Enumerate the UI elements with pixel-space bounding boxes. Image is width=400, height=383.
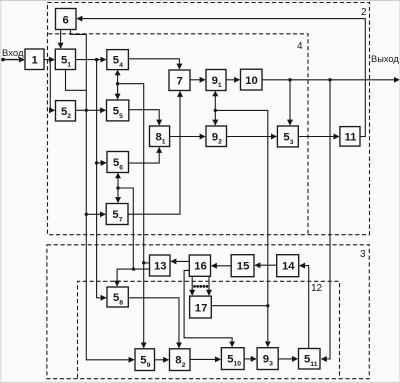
wire 14 to 15 <box>255 264 277 266</box>
svg-text:12: 12 <box>311 283 323 294</box>
block 17 <box>190 296 212 318</box>
wire 5_2 to 5_5 <box>76 109 106 111</box>
svg-text:6: 6 <box>63 15 69 27</box>
wire 9_1 bottom / 9_2 top bidirectional <box>214 92 216 125</box>
block 1 <box>25 49 44 70</box>
wire 8_2 to 5_10 <box>190 358 220 360</box>
junction dot 17 output <box>266 304 269 307</box>
block 10 <box>241 69 263 90</box>
block 5_2 <box>56 101 76 121</box>
svg-text:3: 3 <box>360 249 366 260</box>
junction dot on 5_4-5_5 link <box>116 82 119 85</box>
dashed box 2 (outer upper unit) <box>48 3 370 235</box>
junction dot on 5_2-5_5 wire <box>85 109 88 112</box>
wire 5_4 to 7 top <box>128 59 179 69</box>
wire 7 to 9_1 <box>190 79 205 81</box>
wire 16 to 17 bus left line <box>191 276 193 295</box>
dashed box 3 (outer lower unit) <box>47 245 369 379</box>
svg-text:1: 1 <box>32 55 38 67</box>
bus ellipsis dots between 16 and 17 <box>193 285 208 288</box>
wire 17 output to sync line <box>211 305 267 307</box>
wire branch to 5_6 left <box>97 162 106 164</box>
block 5_6 <box>107 152 129 173</box>
wire 5_10 to 9_3 <box>244 358 256 360</box>
junction dot on left bus at 5_7 level <box>85 213 88 216</box>
block 14 <box>277 255 299 277</box>
wire block 11 output feedback to block 6 <box>77 19 365 137</box>
junction dot on 1-5_1 wire <box>49 58 52 61</box>
wire branch from 5_6-5_7 link down to 5_8 feed line <box>118 188 133 269</box>
block 8_2 <box>170 349 191 371</box>
junction input terminal dot <box>1 58 5 62</box>
wire junction down to 5_2 left <box>50 60 54 111</box>
block 5_8 <box>107 287 128 307</box>
junction dot on 5_6-5_7 link <box>116 186 119 189</box>
wire 8_1 to 9_2 <box>170 136 205 138</box>
block 5_10 <box>221 348 244 370</box>
block 15 <box>231 255 254 277</box>
dashed box 4 (inner upper unit) <box>48 34 308 234</box>
wire 5_1 to 5_4 <box>76 59 106 61</box>
wire 5_3 to 11 <box>298 136 338 138</box>
wire 15 to 16 <box>212 265 232 267</box>
wire output line to Выход <box>262 79 399 81</box>
svg-text:15: 15 <box>237 261 250 273</box>
block 7 <box>169 70 190 91</box>
wire stub into 13 left <box>144 262 150 264</box>
svg-text:13: 13 <box>154 261 167 273</box>
block 8_1 <box>150 126 170 147</box>
wire block 6 to 5_1 top <box>60 30 62 48</box>
junction dot on branch at 5_6 level <box>95 161 98 164</box>
block 5_1 <box>55 49 75 69</box>
wire 16 to 17 bus right line <box>208 276 210 295</box>
svg-text:4: 4 <box>297 41 303 52</box>
block 11 <box>340 127 360 147</box>
wire 9_2 to 5_3 <box>227 136 277 138</box>
svg-text:Вход: Вход <box>2 48 24 59</box>
svg-text:Выход: Выход <box>371 54 399 64</box>
wire junction to descending line to 13 area <box>118 84 144 348</box>
junction dot at 13 left stub <box>142 261 145 264</box>
wire 5_6 bottom / 5_7 top bidirectional <box>117 174 119 203</box>
block 5_11 <box>299 349 321 370</box>
block 5_4 <box>107 50 129 70</box>
svg-text:17: 17 <box>195 302 208 314</box>
wire output branch down into 5_3 top <box>289 80 291 125</box>
wire branch to 5_7 left <box>86 213 105 215</box>
wire 5_1 bottom joining vertical bus <box>66 70 87 91</box>
wire 5_11 top up into 14 right <box>300 266 309 349</box>
block 16 <box>189 255 210 276</box>
svg-text:10: 10 <box>245 75 258 87</box>
block 5_7 <box>106 204 128 225</box>
wire input terminal to block 1 <box>3 59 25 61</box>
wire 5_1 output branch down to 5_6 and 5_8 <box>97 60 106 298</box>
block 9_2 <box>206 126 227 147</box>
wire output branch down into 5_11 right <box>322 80 330 359</box>
junction dot on 9_1-9_2 link <box>214 109 217 112</box>
wire 5_9 to 8_2 <box>155 359 169 361</box>
svg-text:2: 2 <box>361 7 367 18</box>
wire 16 to 13 <box>171 260 189 262</box>
block 9_3 <box>257 348 278 370</box>
wire 5_7 output up to 7 bottom <box>128 92 180 215</box>
wire 9_1 to 10 <box>226 79 239 81</box>
wire block 6 second output down-right <box>71 30 134 360</box>
svg-text:7: 7 <box>177 76 183 88</box>
wire 5_5 to 8_1 top <box>129 110 159 125</box>
junction dot on 5_8 feed line <box>132 267 135 270</box>
block 5_9 <box>135 349 155 371</box>
wire horizontal into 13 left lower <box>117 269 149 286</box>
block 5_5 <box>107 100 129 121</box>
block 9_1 <box>206 70 226 91</box>
wire 9_3 to 5_11 <box>278 358 297 360</box>
junction dot output line at 290 <box>288 78 291 81</box>
junction dot on 5_1-5_4 wire <box>95 58 98 61</box>
block 13 <box>150 255 171 276</box>
block 6 <box>56 9 77 30</box>
dashed box 12 (inner lower unit) <box>78 281 340 378</box>
block 5_3 <box>277 126 298 147</box>
wire 5_4 bottom / 5_5 top bidirectional <box>117 71 119 84</box>
wire 16 lower-left down to 5_10 top <box>184 270 232 346</box>
wire 5_8 output to 8_2 top <box>128 298 179 348</box>
wire block 1 to 5_1 <box>44 59 54 61</box>
wire sync line from 9 link down to 9_3 top <box>215 110 267 346</box>
svg-text:16: 16 <box>194 261 207 273</box>
wire 5_6 to 8_1 bottom <box>129 148 160 163</box>
svg-text:11: 11 <box>345 131 357 143</box>
junction dot output line at 330 <box>328 78 331 81</box>
svg-text:14: 14 <box>282 261 295 273</box>
